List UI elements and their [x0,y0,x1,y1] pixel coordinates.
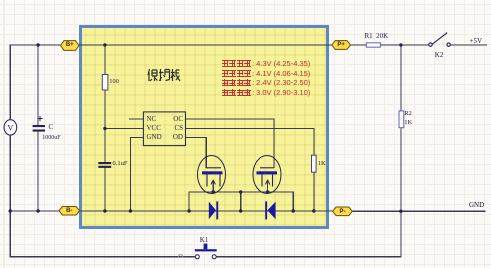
svg-text:V: V [7,123,14,133]
